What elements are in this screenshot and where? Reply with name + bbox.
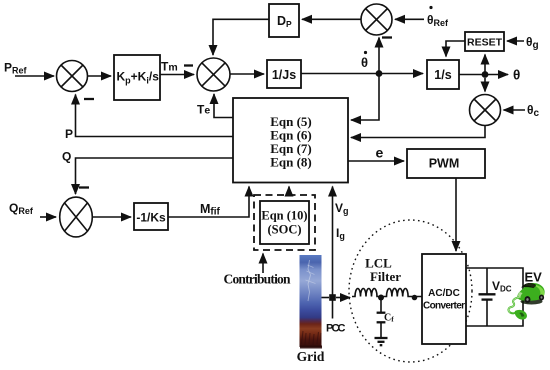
svg-text:Te: Te <box>197 103 210 117</box>
svg-text:P: P <box>65 127 73 141</box>
svg-text:RESET: RESET <box>467 37 503 49</box>
svg-text:VDC: VDC <box>492 279 512 294</box>
svg-text:EV: EV <box>525 270 543 285</box>
svg-text:Vg: Vg <box>335 201 349 216</box>
svg-text:Ig: Ig <box>336 226 345 241</box>
svg-text:θ: θ <box>513 68 520 83</box>
svg-text:Converter: Converter <box>423 301 465 312</box>
svg-text:Kp+Ki/s: Kp+Ki/s <box>117 70 160 86</box>
svg-text:Mfif: Mfif <box>200 202 221 218</box>
svg-text:Cf: Cf <box>384 313 394 324</box>
svg-text:AC/DC: AC/DC <box>428 288 460 299</box>
svg-text:Q: Q <box>62 150 71 164</box>
svg-text:θg: θg <box>526 35 539 51</box>
svg-text:Contribution: Contribution <box>224 272 291 287</box>
svg-text:(SOC): (SOC) <box>267 223 301 237</box>
svg-text:PWM: PWM <box>429 157 460 171</box>
svg-text:θ: θ <box>361 55 368 70</box>
svg-text:e: e <box>376 145 384 161</box>
svg-text:θc: θc <box>527 103 540 119</box>
svg-text:1/s: 1/s <box>434 68 451 82</box>
svg-text:θRef: θRef <box>427 13 449 28</box>
svg-text:1/Js: 1/Js <box>272 68 296 82</box>
svg-text:Filter: Filter <box>370 269 401 284</box>
svg-text:PRef: PRef <box>4 61 28 76</box>
svg-text:QRef: QRef <box>9 201 34 216</box>
svg-text:Eqn (8): Eqn (8) <box>270 155 312 170</box>
svg-text:-1/Ks: -1/Ks <box>136 211 166 225</box>
svg-text:Grid: Grid <box>297 349 325 364</box>
svg-text:PCC: PCC <box>326 323 346 335</box>
svg-text:Eqn (10): Eqn (10) <box>261 209 307 223</box>
svg-text:Tm: Tm <box>161 60 178 74</box>
